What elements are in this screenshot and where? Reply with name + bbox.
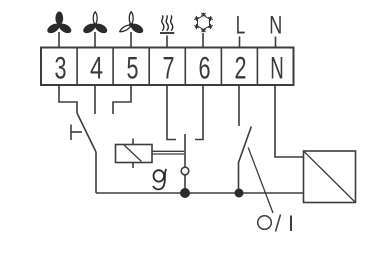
wire on/off pivot to node B — [238, 162, 240, 193]
svg-text:6: 6 — [199, 50, 211, 86]
terminal block outline — [41, 48, 294, 86]
heating icon (terminal 7) — [160, 15, 174, 33]
wire from terminal 6 (cooling contact) — [195, 85, 203, 140]
wire stub terminal 5 top — [130, 32, 132, 48]
wire from terminal 3 down — [59, 85, 77, 113]
fan selector switch blade — [77, 113, 96, 152]
svg-text:L: L — [236, 12, 246, 40]
svg-text:2: 2 — [235, 50, 247, 86]
wire stub terminal 4 top — [94, 32, 96, 48]
wire from terminal N to supply box — [275, 85, 304, 157]
svg-text:N: N — [270, 50, 284, 86]
thermal actuator top pin — [132, 139, 134, 145]
on/off actuator link — [248, 148, 273, 214]
svg-text:7: 7 — [163, 50, 175, 86]
terminal divider 6|2 — [220, 48, 222, 86]
node A junction dot — [180, 188, 190, 198]
O/I switch label — [258, 215, 291, 232]
thermal contact circle — [181, 167, 189, 175]
wire stub terminal 7 top — [166, 36, 168, 48]
svg-text:3: 3 — [55, 50, 67, 86]
manual actuator symbol — [71, 125, 82, 141]
terminal divider 2|N — [256, 48, 258, 86]
wire stub terminal 4 down — [94, 85, 96, 114]
wire from terminal 5 down — [113, 85, 131, 114]
terminal divider 3|4 — [76, 48, 78, 86]
on/off switch blade — [239, 127, 252, 163]
svg-text:4: 4 — [90, 50, 103, 86]
temperature symbol theta — [153, 169, 166, 189]
node B junction dot — [235, 189, 244, 198]
fan icon high speed (terminal 3) — [46, 12, 73, 36]
power supply box — [304, 151, 356, 203]
thermal actuator box — [116, 145, 153, 163]
power supply box diagonal — [304, 151, 356, 203]
fan icon low speed (terminal 5) — [119, 12, 145, 35]
wire contact circle to node A — [184, 175, 186, 193]
cooling snowflake icon (terminal 6) — [194, 13, 213, 33]
thermal actuator diagonal — [124, 145, 142, 162]
terminal divider 5|7 — [148, 48, 150, 86]
fan icon medium speed (terminal 4) — [82, 12, 109, 35]
wire fan selector pivot to bus — [95, 152, 97, 193]
svg-text:N: N — [269, 12, 282, 40]
mechanical link double line — [152, 151, 184, 154]
bus wire bottom — [96, 192, 304, 194]
svg-text:5: 5 — [127, 50, 139, 86]
wire stub terminal 6 top — [202, 33, 204, 48]
wire stub terminal 2 top — [239, 37, 241, 48]
wire stub terminal N top — [275, 37, 277, 48]
terminal divider 7|6 — [184, 48, 186, 86]
wire stub terminal 3 top — [58, 32, 60, 48]
changeover contact blade — [184, 134, 186, 167]
thermal actuator bottom pin — [132, 163, 134, 169]
terminal divider 4|5 — [112, 48, 114, 86]
wire from terminal 7 (heating contact) — [167, 85, 176, 140]
wire from terminal 2 down — [238, 85, 240, 126]
